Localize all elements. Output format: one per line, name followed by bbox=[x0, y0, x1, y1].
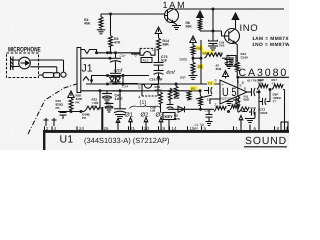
wire R70a down bbox=[160, 104, 162, 113]
plug ring bbox=[54, 73, 60, 78]
label CA3080 bbox=[239, 67, 289, 79]
label R10 7K bbox=[258, 78, 265, 86]
node y111 a bbox=[70, 110, 73, 113]
resistor R12 bbox=[235, 62, 239, 72]
label pin5 bbox=[237, 79, 240, 84]
label C13 MV2 bbox=[260, 108, 268, 116]
wire C61 drop bbox=[119, 91, 121, 109]
wire R14 down bbox=[158, 50, 160, 62]
node 229 bbox=[227, 110, 230, 113]
label SOUND bbox=[245, 136, 287, 147]
label C5b bbox=[113, 82, 119, 86]
label C1 70 bbox=[195, 123, 205, 127]
resistor R70a bbox=[159, 92, 163, 104]
ground left of Q2 bbox=[225, 65, 233, 69]
svg-text:4: 4 bbox=[138, 94, 141, 99]
highlight C6 bbox=[207, 81, 214, 85]
wire mic out top bbox=[30, 60, 63, 72]
svg-text:+MV2: +MV2 bbox=[260, 111, 268, 115]
wire C13 up bbox=[267, 90, 271, 102]
wire cap stub2 bbox=[204, 90, 209, 92]
wire arrow-R26 bbox=[70, 97, 72, 100]
node top bus at x214 bbox=[212, 8, 215, 11]
label phase 3 bbox=[156, 112, 165, 119]
label R70 56K bbox=[221, 97, 233, 101]
capacitor C5 bbox=[110, 58, 121, 62]
label small specs bbox=[247, 79, 263, 83]
svg-text:HP6: HP6 bbox=[174, 117, 180, 121]
svg-text:26: 26 bbox=[104, 126, 110, 131]
capacitor C60 bbox=[252, 109, 256, 116]
label C16 5MF bbox=[150, 78, 163, 82]
svg-text:(344S1033-A) (S7212AP): (344S1033-A) (S7212AP) bbox=[84, 136, 170, 145]
svg-text:Ø2: Ø2 bbox=[141, 112, 150, 119]
capacitor C49 bbox=[209, 40, 218, 44]
wire module A in bbox=[131, 53, 140, 55]
wire right corner bbox=[283, 90, 285, 132]
resistor R70 bbox=[214, 106, 226, 111]
wire R3 drop bbox=[110, 14, 112, 36]
op-amp pin6 bbox=[244, 87, 246, 91]
svg-text:5: 5 bbox=[138, 84, 141, 89]
node 200,90.8 bbox=[199, 89, 202, 92]
label C40 bbox=[150, 106, 157, 113]
svg-text:82Ø: 82Ø bbox=[244, 98, 250, 102]
capacitor out bbox=[252, 88, 256, 96]
label R12 C140 bbox=[241, 52, 249, 60]
wire arrow to Q2 bbox=[235, 20, 237, 29]
capacitor C17 bbox=[167, 105, 174, 109]
wire U5 minus input bbox=[210, 98, 220, 100]
highlight R8b bbox=[197, 64, 204, 69]
label R5 text bbox=[191, 87, 195, 91]
wire C16 down bbox=[158, 74, 160, 85]
svg-text:PK: PK bbox=[82, 116, 87, 120]
wire R70b down bbox=[169, 100, 171, 104]
wire x201 col bbox=[200, 40, 202, 84]
wire top-left horizontal bus bbox=[101, 13, 164, 15]
small ticks above pins 2 4 bbox=[44, 118, 57, 126]
label C61 bbox=[106, 102, 112, 109]
label C9 HP6 bbox=[174, 114, 180, 121]
label 4mf bbox=[114, 68, 123, 74]
wire R3 bottom bbox=[110, 47, 112, 53]
ground under C43 bbox=[103, 98, 112, 102]
label R8 text bbox=[203, 51, 207, 55]
svg-text:5: 5 bbox=[240, 84, 242, 88]
wire y75.5 bus bbox=[91, 75, 149, 77]
inductor coil bbox=[198, 19, 202, 30]
svg-text:7?: 7? bbox=[273, 100, 277, 104]
IC U1 pin numbers bbox=[45, 126, 289, 131]
node R3 at bus bbox=[109, 51, 112, 54]
svg-text:35/6: 35/6 bbox=[216, 67, 222, 71]
wire arrow-R14 bbox=[158, 34, 160, 39]
label U5 bbox=[222, 85, 237, 99]
label R14 68K bbox=[163, 39, 170, 47]
label C4 W50 bbox=[180, 76, 186, 80]
wire y111.5 bbox=[58, 111, 84, 113]
wire y90.8 bus bbox=[81, 90, 200, 92]
label phase 2 bbox=[141, 112, 150, 119]
pin arrow ph2 bbox=[144, 118, 148, 131]
svg-text:1: 1 bbox=[152, 47, 155, 52]
node y75.5 a bbox=[106, 74, 109, 77]
svg-text:-40P: -40P bbox=[106, 105, 112, 109]
capacitor C43b bbox=[105, 104, 114, 108]
module box small bbox=[227, 56, 236, 67]
diode pair bbox=[110, 77, 121, 82]
svg-text:C140: C140 bbox=[241, 56, 249, 60]
resistor R8 bbox=[205, 53, 223, 58]
ground pin6 bbox=[245, 119, 255, 123]
power arrow mid bbox=[223, 71, 229, 77]
label R15 8200 PK bbox=[56, 99, 64, 110]
wire R4 drop bbox=[100, 14, 102, 17]
wire C5 drop bbox=[115, 53, 117, 58]
node at 214,31 bbox=[212, 30, 215, 33]
resistor R5b bbox=[187, 91, 191, 101]
wire into Q2 base bbox=[222, 31, 225, 36]
resistor R6b bbox=[191, 62, 195, 73]
IC U1 top edge bbox=[43, 130, 289, 133]
wire 1600-201 bbox=[193, 57, 201, 59]
wire R8 right bbox=[222, 57, 227, 59]
node y84 b bbox=[122, 83, 125, 86]
power arrow R6 bbox=[190, 36, 196, 43]
wire pin6 tick bbox=[249, 125, 251, 132]
svg-text:19: 19 bbox=[160, 126, 166, 131]
microphone transducer bbox=[11, 57, 20, 71]
wire to x241 bbox=[240, 110, 247, 112]
node out bbox=[258, 91, 261, 94]
resistor R5a bbox=[174, 86, 178, 97]
wire R6b-gnd bbox=[192, 73, 194, 76]
label 12 bbox=[207, 98, 211, 102]
wire R4 to ground bbox=[100, 28, 102, 30]
capacitor C10 bbox=[206, 115, 213, 118]
label 470 bbox=[231, 103, 237, 107]
module B pin5 bbox=[138, 84, 141, 89]
label 1AM = MM87 bbox=[252, 36, 289, 42]
svg-text:21: 21 bbox=[130, 126, 136, 131]
wire R5a bbox=[175, 84, 177, 86]
label C14 bbox=[122, 85, 128, 89]
svg-text:45K: 45K bbox=[84, 22, 91, 26]
svg-text:1AM = MM87X: 1AM = MM87X bbox=[252, 36, 289, 42]
plug sleeve bbox=[43, 73, 54, 78]
svg-text:C10: C10 bbox=[205, 109, 211, 113]
chassis boundary bbox=[28, 84, 77, 134]
wire CA3080 underline bbox=[237, 76, 289, 78]
capacitor C13 bbox=[263, 98, 267, 105]
wire C44 down bbox=[62, 115, 64, 119]
svg-text:R7Ø 56K: R7Ø 56K bbox=[221, 97, 233, 101]
svg-text:6: 6 bbox=[242, 80, 245, 85]
resistor R10 bbox=[257, 84, 268, 89]
label 56K bbox=[186, 21, 193, 29]
wire x238 down bbox=[237, 77, 239, 96]
resistor R11 bbox=[236, 96, 240, 107]
node y84 a bbox=[106, 83, 109, 86]
label 1NO = MM87 bbox=[252, 42, 290, 48]
wire x123 link bbox=[122, 76, 124, 85]
svg-text:11Ø: 11Ø bbox=[150, 109, 156, 113]
svg-text:R8: R8 bbox=[198, 65, 202, 69]
node y75.5 b bbox=[122, 74, 125, 77]
label part numbers bbox=[84, 136, 170, 145]
svg-text:68K: 68K bbox=[163, 43, 170, 47]
wire C73-C16 bbox=[158, 65, 160, 70]
op-amp pin5 bbox=[240, 84, 242, 88]
svg-text:R5: R5 bbox=[191, 87, 195, 91]
svg-text:72/6: 72/6 bbox=[219, 44, 225, 48]
capacitor C43 bbox=[102, 94, 112, 98]
node y111 b bbox=[80, 110, 83, 113]
label C6P MFD bbox=[273, 93, 282, 104]
pin arrow x118 bbox=[116, 119, 120, 131]
power arrow R14 bbox=[155, 27, 162, 34]
wire x100 drop bbox=[99, 91, 101, 110]
jack contact arm2 bbox=[81, 57, 110, 59]
jack contact middle lambda bbox=[83, 76, 93, 82]
svg-text:4mf: 4mf bbox=[166, 70, 175, 76]
svg-text:+: + bbox=[259, 96, 261, 100]
svg-text:14: 14 bbox=[172, 126, 178, 131]
svg-text:R8: R8 bbox=[203, 51, 207, 55]
svg-text:PK: PK bbox=[76, 101, 81, 105]
label C10 bbox=[205, 109, 211, 113]
ground under R6b bbox=[189, 76, 198, 80]
wire C13 branch bbox=[259, 101, 262, 103]
resistor R3 bbox=[109, 36, 113, 47]
label U1 bbox=[60, 134, 74, 146]
label C43 11PF bbox=[115, 94, 124, 102]
label 43 35/6 bbox=[216, 64, 222, 71]
label 1AM bbox=[163, 0, 187, 10]
wire R6-R8col bbox=[192, 55, 194, 62]
node y90.8 b bbox=[119, 89, 122, 92]
svg-text:PK: PK bbox=[56, 106, 61, 110]
wire y52.8 bus bbox=[97, 52, 141, 54]
svg-text:11PF: 11PF bbox=[115, 97, 124, 101]
op-amp pin3 bbox=[215, 79, 217, 83]
wire C5 mid bbox=[115, 62, 117, 74]
node 193,58 bbox=[192, 57, 195, 60]
label C44B PK bbox=[82, 113, 91, 120]
node arm2 bbox=[109, 57, 112, 60]
label ~140 bbox=[214, 52, 222, 56]
label O6 bbox=[194, 127, 198, 131]
power arrow above Q2 bbox=[232, 13, 239, 20]
label plus C13 bbox=[259, 96, 261, 100]
IC U1 left edge bbox=[43, 130, 45, 150]
resistor R105 bbox=[239, 107, 249, 112]
ground under C49 bbox=[208, 46, 218, 50]
svg-text:J1: J1 bbox=[82, 63, 93, 75]
diode D1 bbox=[178, 106, 185, 112]
node junction R3 top bbox=[109, 13, 112, 16]
wire R9 bottom bbox=[200, 106, 202, 109]
highlight R8 bbox=[202, 51, 214, 55]
resistor R14 bbox=[157, 38, 161, 50]
svg-text:12: 12 bbox=[207, 98, 211, 102]
svg-text:47K: 47K bbox=[114, 41, 121, 45]
label J1 bbox=[82, 63, 93, 75]
wire Q1 emitter to ground bbox=[174, 23, 177, 26]
power arrow above coil bbox=[197, 11, 203, 18]
node y90.8 a bbox=[99, 89, 102, 92]
svg-text:AL2: AL2 bbox=[143, 59, 149, 63]
svg-text:MICROPHONE: MICROPHONE bbox=[8, 47, 41, 54]
label R11 820 bbox=[244, 95, 250, 102]
node x158 y77.5 bbox=[157, 76, 160, 79]
highlight R5 bbox=[190, 86, 198, 91]
label R14 560K bbox=[155, 85, 164, 92]
wire C60 down bbox=[254, 112, 256, 118]
op-amp pin2 bbox=[215, 103, 217, 107]
module B outline bbox=[142, 85, 158, 97]
label R70 bbox=[216, 105, 222, 109]
ground under R4 bbox=[97, 30, 105, 34]
pin arrow x241 bbox=[239, 116, 243, 131]
plug stub bbox=[39, 74, 43, 76]
label R3 47K bbox=[114, 37, 121, 45]
wire R12 down bbox=[236, 72, 238, 77]
wire x237 stub bbox=[233, 99, 236, 101]
label C73 51F bbox=[161, 55, 168, 63]
label R6 text bbox=[197, 47, 201, 51]
wire cap stub bbox=[228, 57, 230, 60]
wire out up bbox=[258, 90, 260, 93]
small box bottom right bbox=[281, 122, 288, 131]
svg-text:C6: C6 bbox=[208, 82, 212, 86]
pin arrow ph1 bbox=[129, 118, 133, 131]
wire x214 vertical bbox=[212, 9, 214, 41]
wire R9 top bbox=[199, 91, 202, 96]
wire coil bottom bbox=[199, 29, 201, 31]
svg-text:24: 24 bbox=[79, 126, 85, 131]
wire C49 bbox=[212, 44, 214, 47]
module B pin4 bbox=[138, 94, 141, 99]
node 201,58 bbox=[200, 57, 203, 60]
wire Q2 emitter down bbox=[235, 43, 238, 62]
transistor Q1 1AM bbox=[165, 9, 179, 23]
svg-text:C5+: C5+ bbox=[120, 54, 126, 58]
label R32 bbox=[92, 98, 99, 109]
highlight R6 bbox=[196, 46, 204, 51]
node y52.8 mid bbox=[106, 51, 109, 54]
resistor R26 bbox=[69, 98, 73, 110]
wire KEY down bbox=[168, 120, 170, 131]
node C5 at bus bbox=[114, 51, 117, 54]
label R8b text bbox=[198, 65, 202, 69]
svg-text:56K: 56K bbox=[186, 25, 193, 29]
label R4 45K bbox=[84, 18, 91, 26]
resistor R17 bbox=[272, 84, 283, 89]
node R10-R17 bbox=[269, 88, 272, 91]
label R26 3400 bbox=[76, 94, 83, 105]
svg-text:6: 6 bbox=[244, 87, 246, 91]
svg-text:C6Ø: C6Ø bbox=[250, 106, 257, 110]
resistor R6 bbox=[191, 45, 195, 55]
wire arrow to coil bbox=[199, 18, 201, 19]
label pin6 bbox=[242, 80, 245, 85]
wire x200-x214 at y31 bbox=[200, 30, 222, 32]
wire heavy x102 bbox=[101, 107, 103, 131]
label AL2 bbox=[141, 58, 152, 63]
microphone element circle bbox=[19, 57, 31, 69]
node diode row bbox=[199, 108, 202, 111]
module A outline bbox=[140, 48, 155, 55]
wire U5 in stub bbox=[209, 99, 211, 104]
resistor R32 bbox=[84, 106, 100, 111]
jack contact top with V bbox=[81, 50, 97, 54]
op-amp minus bbox=[222, 97, 225, 102]
svg-text:Ø6: Ø6 bbox=[194, 127, 198, 131]
wire y91 into module B bbox=[112, 90, 141, 92]
svg-text:KEY: KEY bbox=[165, 114, 174, 119]
wire y109 bbox=[168, 108, 214, 110]
svg-text:1NO = MM87W: 1NO = MM87W bbox=[252, 42, 289, 48]
svg-text:20: 20 bbox=[144, 126, 150, 131]
module A pin1 bbox=[152, 47, 155, 52]
brace bbox=[130, 105, 162, 109]
capacitor x237 bbox=[236, 97, 240, 104]
jack J1 body bbox=[77, 48, 81, 93]
wire arrow stub bbox=[225, 77, 227, 79]
label C49 72/6 bbox=[219, 41, 225, 48]
svg-text:5MF: 5MF bbox=[174, 96, 180, 100]
resistor R4 bbox=[99, 17, 103, 28]
ground under C61 bbox=[115, 115, 125, 119]
wire C10 stub bbox=[208, 109, 210, 121]
ground under C43b bbox=[105, 108, 113, 112]
capacitor near Q2 bbox=[225, 60, 234, 64]
label C5+ bbox=[120, 54, 126, 58]
capacitor C5b bbox=[110, 73, 121, 77]
wire C43 stub bbox=[106, 91, 108, 98]
capacitor C44 bbox=[60, 113, 67, 116]
op-amp plus bbox=[222, 82, 225, 87]
svg-text:C14: C14 bbox=[122, 85, 128, 89]
wire diagonal bbox=[196, 95, 212, 99]
SOUND underline bbox=[244, 146, 287, 148]
node contact top bbox=[95, 51, 98, 54]
wire mic out bottom bbox=[30, 67, 57, 73]
wire y83.5 into module B bbox=[112, 83, 138, 85]
wire Q2 collector stem bbox=[235, 28, 236, 31]
module A pin6 bbox=[135, 53, 138, 58]
resistor R70b bbox=[168, 88, 172, 100]
label phase 1 bbox=[125, 112, 134, 119]
wire out1 bbox=[247, 91, 252, 93]
label MICROPHONE bbox=[8, 47, 41, 54]
wire R105 right bbox=[238, 111, 251, 113]
ground under C10 bbox=[206, 122, 213, 126]
ground mid bbox=[225, 102, 233, 106]
wire top bus right bbox=[175, 8, 284, 10]
wire C5 bottom bbox=[115, 77, 117, 85]
plug tip bbox=[61, 72, 66, 77]
label 1600 bbox=[179, 58, 187, 62]
svg-text:C4?: C4? bbox=[180, 76, 186, 80]
wire out2 bbox=[256, 91, 259, 93]
pin arrow ph3 bbox=[159, 118, 163, 131]
svg-text:SOUND: SOUND bbox=[245, 136, 287, 147]
wire x259 down bbox=[258, 92, 260, 131]
svg-text:Ø1: Ø1 bbox=[125, 112, 134, 119]
